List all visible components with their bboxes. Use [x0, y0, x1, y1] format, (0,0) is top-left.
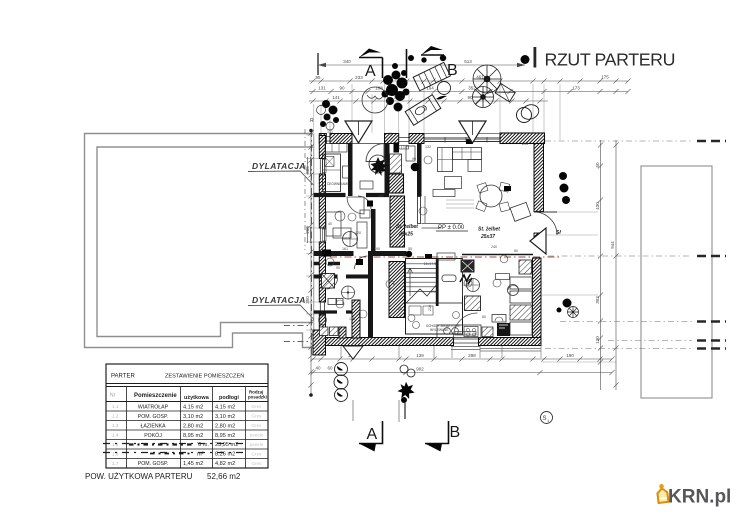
svg-text:Pomieszczenie: Pomieszczenie: [134, 393, 177, 399]
bathroom fan circle: [342, 286, 355, 299]
svg-text:panele: panele: [250, 433, 264, 438]
svg-text:135: 135: [349, 317, 355, 321]
bottom window / terrace door: [454, 339, 479, 343]
toilet: [319, 315, 327, 325]
sink unit: [492, 315, 506, 323]
svg-text:350: 350: [305, 296, 310, 304]
svg-text:B: B: [447, 62, 458, 79]
coffee table: [445, 177, 462, 189]
right vertical dimension chain 1: [600, 140, 602, 390]
svg-text:WYLEWANE: WYLEWANE: [430, 328, 448, 332]
svg-text:40: 40: [315, 366, 321, 371]
circled tag living: [500, 255, 508, 263]
red axis dash-dot line mid building: [330, 256, 560, 258]
door arc wiatrolap-hall: [347, 197, 364, 214]
hall console: [360, 181, 373, 189]
tv shelf: [433, 190, 455, 197]
circled room tags: [326, 156, 501, 318]
room table frame: [106, 364, 268, 468]
svg-text:RZUT PARTERU: RZUT PARTERU: [545, 50, 676, 70]
svg-text:panele: panele: [250, 442, 264, 447]
tick marks chain 3: [310, 89, 630, 94]
svg-text:użytkowa: użytkowa: [184, 395, 210, 401]
big window exterior sill: [424, 133, 500, 135]
svg-text:131: 131: [318, 86, 326, 91]
tech shelf: [406, 146, 415, 161]
stove: [464, 327, 478, 337]
interior wall horizontal y195: [314, 193, 390, 197]
svg-text:Gres: Gres: [252, 452, 263, 457]
neighbour building outline outer: [85, 134, 317, 348]
svg-text:2,80 m2: 2,80 m2: [215, 424, 235, 430]
svg-text:3,10 m2: 3,10 m2: [215, 414, 235, 420]
kitchen extra hatched block: [482, 327, 493, 337]
row lines: [106, 411, 268, 459]
svg-text:90: 90: [388, 132, 392, 136]
funnel bottom: [343, 346, 363, 359]
svg-text:303: 303: [595, 296, 600, 304]
left rotated labels: [305, 166, 310, 304]
svg-text:WIATROŁAP: WIATROŁAP: [138, 405, 169, 411]
fridge black: [497, 323, 510, 336]
section marker A top: [359, 57, 383, 59]
kitchen X hatch block: [519, 260, 532, 274]
radiator bottom window: [455, 332, 476, 336]
svg-text:190: 190: [566, 353, 574, 358]
room names: [138, 405, 169, 468]
small pier: [339, 327, 346, 338]
exterior wall top segment 3: [385, 134, 399, 144]
tick marks chain 2: [310, 78, 630, 83]
pokoj furniture: [326, 212, 341, 236]
top dimension chain 2: [309, 80, 628, 82]
interior wall vertical (wiatrolap left): [348, 144, 353, 197]
uzytkowa values: [183, 405, 209, 468]
column header bottom: [106, 401, 268, 403]
KRN.pl logo icon: [655, 483, 669, 504]
row numbers: [112, 404, 119, 466]
big glazing mullions: [424, 139, 500, 141]
svg-text:DYLATACJA: DYLATACJA: [252, 295, 306, 305]
svg-text:25x25: 25x25: [398, 232, 413, 238]
svg-text:DYLATACJA: DYLATACJA: [252, 161, 306, 171]
title dot: [521, 55, 530, 64]
radiator left window 2: [323, 229, 327, 241]
hall small blacks: [322, 250, 331, 257]
svg-text:Gres: Gres: [252, 414, 263, 419]
kitchen right cabinets column: [510, 277, 532, 289]
section marker B top: [406, 49, 408, 78]
tiny dim texts inside: [327, 130, 528, 321]
svg-text:340: 340: [343, 59, 351, 64]
hall thin partition lines: [422, 224, 463, 229]
svg-text:294: 294: [522, 142, 528, 146]
podlogi values: [215, 405, 238, 468]
svg-text:298: 298: [468, 353, 476, 358]
hall threshold black: [425, 254, 432, 258]
door arc hall-pokoj: [355, 256, 368, 269]
svg-text:4,15 m2: 4,15 m2: [215, 405, 235, 411]
door arc bathroom: [327, 278, 338, 289]
svg-text:posadzki: posadzki: [248, 395, 267, 400]
svg-text:120: 120: [355, 231, 361, 235]
right dash-dot axis lines: [545, 141, 692, 349]
window sill bottom exterior: [451, 347, 481, 350]
hall bench rounded: [442, 275, 456, 282]
stair left wall (hatched): [389, 262, 405, 318]
staircase outline: [406, 259, 463, 335]
bush cluster large (black): [382, 63, 410, 112]
sofa group living room: [438, 148, 453, 172]
top dimension chain 4: [309, 100, 548, 102]
rug lines living: [446, 200, 474, 208]
section marker A bottom: [352, 400, 354, 421]
wardrobe room A: [325, 144, 347, 153]
sink circles: [444, 328, 451, 335]
funnel symbol 1: [345, 121, 372, 143]
terrace edge lines right: [480, 349, 541, 352]
window top 2 (large glazing): [424, 138, 500, 142]
right vertical dimension chain 2: [615, 140, 617, 390]
left vertical dimension chain: [310, 129, 312, 397]
right boundary rectangle: [641, 166, 712, 398]
top dimension chain 3: [309, 91, 628, 93]
window top 2: [399, 138, 409, 142]
right trees dots: [557, 172, 572, 313]
funnel symbol right side: [530, 228, 546, 254]
kitchen island hatched: [465, 296, 481, 311]
radiator left window 1: [323, 160, 327, 173]
interior wall vertical (wiatrolap right): [385, 144, 390, 194]
exterior right wall mid stub: [534, 233, 542, 243]
svg-text:90: 90: [339, 86, 345, 91]
svg-text:25: 25: [398, 307, 402, 311]
svg-text:POM. GOSP.: POM. GOSP.: [138, 461, 168, 467]
window sill left exterior 1: [308, 157, 311, 175]
svg-text:130: 130: [595, 336, 600, 344]
svg-text:902: 902: [416, 367, 424, 372]
svg-text:POW. UŻYTKOWA PARTERU: POW. UŻYTKOWA PARTERU: [85, 472, 193, 481]
right flower: [568, 307, 579, 318]
svg-text:Gres: Gres: [252, 461, 263, 466]
exterior wall top-left segment: [319, 134, 326, 144]
svg-text:52,66 m2: 52,66 m2: [207, 472, 241, 481]
svg-text:11x17,5: 11x17,5: [424, 262, 437, 266]
title bar: [534, 47, 537, 68]
interior wall vertical pokoj/lazienka: [368, 256, 373, 338]
tick marks bottom chain 2: [310, 370, 614, 375]
pokoj B dark square: [367, 201, 373, 207]
svg-text:131: 131: [327, 130, 333, 134]
pokoj B small rect: [360, 210, 370, 218]
witness lines right: [542, 212, 616, 362]
header separator double line: [106, 383, 268, 385]
svg-text:2,80 m2: 2,80 m2: [183, 424, 203, 430]
entry door arc: [366, 144, 384, 162]
svg-text:3,10 m2: 3,10 m2: [183, 414, 203, 420]
exterior wall top segment 2: [330, 134, 352, 144]
nightstand: [343, 166, 349, 178]
tech room washer (hatched with X): [390, 154, 402, 173]
under-stair storage rects: [409, 306, 421, 315]
witness lines top: [314, 84, 560, 140]
right rotated labels: [595, 162, 615, 344]
svg-text:A: A: [367, 426, 378, 443]
small black fittings: [394, 143, 400, 153]
terrace door arc: [454, 313, 478, 337]
exterior right wall upper: [534, 144, 544, 212]
svg-text:25x37: 25x37: [480, 234, 495, 240]
svg-text:PARTER: PARTER: [111, 374, 135, 380]
svg-text:181: 181: [378, 194, 384, 198]
shower block hatched with X: [322, 274, 335, 289]
svg-text:40: 40: [328, 222, 332, 226]
svg-text:KRN.pl: KRN.pl: [668, 487, 731, 508]
stair stringer wall: [436, 259, 439, 307]
rotated table with X: [495, 84, 515, 102]
dylatacja joint line (red dash-dot): [311, 130, 313, 356]
dryer hatched: [330, 327, 339, 336]
sink unit rects: [328, 299, 336, 305]
chimney column (hatched): [390, 196, 405, 247]
svg-text:161: 161: [342, 247, 348, 251]
kitchen spoked table: [467, 279, 480, 292]
exterior wall top-right block: [500, 133, 545, 144]
svg-text:164: 164: [426, 86, 434, 91]
tick marks left chain: [308, 130, 313, 387]
neighbour building outline inner: [97, 147, 313, 337]
svg-text:R: R: [310, 118, 314, 124]
armchair: [510, 202, 531, 221]
pokoj B door arc: [358, 196, 371, 209]
texts in plan: [396, 224, 500, 240]
svg-text:B: B: [450, 424, 461, 441]
top dimension line 1: [318, 64, 525, 66]
dylatacja gap edge line: [313, 134, 315, 348]
stair up arrow: [408, 268, 413, 296]
svg-text:S: S: [543, 416, 547, 422]
tick marks bottom chain 1: [310, 356, 614, 361]
interior wall mid horizontal: [314, 251, 407, 256]
svg-text:8,95 m2: 8,95 m2: [183, 433, 203, 439]
tick marks chain 4: [310, 98, 542, 103]
strike dashed rows 5-6: [103, 444, 247, 454]
svg-text:60: 60: [327, 366, 333, 371]
sun lounger rotated: [405, 95, 441, 126]
svg-text:430: 430: [595, 202, 600, 210]
electrical zigzag: [460, 274, 471, 282]
S1 symbol: [541, 412, 553, 424]
interior wall vertical (tech room / living): [417, 144, 422, 197]
stair steps: [406, 264, 438, 292]
svg-text:podłogi: podłogi: [219, 395, 239, 401]
svg-text:90: 90: [412, 157, 416, 161]
kitchen counter along bottom: [437, 325, 481, 338]
bottom dimension chain 2: [311, 372, 612, 374]
bed room A: [323, 154, 341, 192]
stair break line: [406, 284, 437, 303]
posadzka column light: [250, 404, 264, 466]
bathroom inner wall: [314, 262, 341, 266]
coat hooks spiky disc: [369, 155, 388, 176]
svg-text:60: 60: [482, 315, 486, 319]
svg-text:210: 210: [431, 290, 437, 294]
washing machine hatched: [320, 327, 329, 336]
section marker B bottom: [425, 421, 449, 444]
svg-text:95: 95: [315, 75, 321, 80]
svg-text:513: 513: [464, 59, 472, 64]
circled tags stairs: [408, 315, 415, 322]
door right (arc): [534, 212, 557, 235]
svg-text:A: A: [365, 63, 376, 80]
bottom flower cluster: [400, 365, 408, 373]
bottom dimension chain 1: [311, 358, 612, 360]
svg-text:944: 944: [610, 241, 615, 249]
patio bench rotated striped: [413, 62, 450, 90]
tick marks right chain 1: [598, 142, 603, 364]
window sill left exterior 2: [308, 227, 311, 243]
svg-text:233: 233: [355, 75, 363, 80]
bench ellipse right: [519, 102, 541, 121]
column lines: [127, 387, 246, 469]
tech room boiler black dot: [411, 163, 420, 172]
duct core (hatched) upper: [389, 174, 404, 193]
svg-text:55: 55: [408, 247, 412, 251]
svg-text:Gres: Gres: [252, 404, 263, 409]
svg-text:4,15 m2: 4,15 m2: [183, 405, 203, 411]
bird mark: [436, 96, 447, 100]
exterior wall top segment 4: [409, 134, 424, 144]
pokoj B spoked circle: [343, 232, 358, 247]
radiator top window: [399, 146, 409, 150]
svg-text:Nr: Nr: [110, 393, 116, 399]
svg-text:1.1: 1.1: [112, 404, 119, 409]
svg-text:141: 141: [332, 95, 340, 100]
svg-text:POM. GOSP.: POM. GOSP.: [138, 414, 168, 420]
svg-text:PP ± 0.00: PP ± 0.00: [438, 225, 465, 231]
svg-text:CEOWNIKAMI: CEOWNIKAMI: [327, 182, 348, 186]
svg-text:1.3: 1.3: [112, 423, 119, 428]
exterior bottom wall left part: [326, 338, 454, 346]
bed pillow X: [325, 157, 335, 167]
funnel symbol 2: [459, 121, 486, 143]
svg-text:St. żelbet: St. żelbet: [478, 227, 500, 233]
swivel chair: [508, 285, 519, 296]
witness lines left: [306, 135, 319, 347]
kitchen/living divider line: [462, 258, 464, 296]
svg-text:Gres: Gres: [252, 423, 263, 428]
window top small: [326, 137, 330, 142]
svg-text:90: 90: [336, 266, 340, 270]
bottom shrub row: [334, 363, 348, 402]
svg-text:139: 139: [416, 353, 424, 358]
svg-text:1.5: 1.5: [112, 442, 119, 447]
exterior left wall (segments with window gaps): [319, 136, 325, 159]
svg-text:50: 50: [595, 162, 600, 168]
svg-text:80: 80: [514, 249, 518, 253]
svg-text:8,95 m2: 8,95 m2: [215, 433, 235, 439]
svg-text:ŁAZIENKA: ŁAZIENKA: [140, 424, 166, 430]
svg-text:1,45 m2: 1,45 m2: [183, 461, 203, 467]
svg-text:90: 90: [376, 247, 380, 251]
svg-text:1.2: 1.2: [112, 414, 119, 419]
kitchen upper counter: [496, 274, 510, 280]
kitchen tall cabinet dark: [461, 260, 475, 273]
exterior bottom wall right part: [479, 338, 542, 346]
tick marks right chain 2: [613, 142, 618, 387]
bathroom divider wall: [314, 310, 357, 313]
svg-text:1.4: 1.4: [112, 433, 119, 438]
svg-text:POKÓJ: POKÓJ: [144, 432, 162, 439]
exterior right wall lower: [533, 258, 542, 345]
interior wall bathroom horizontal: [314, 275, 369, 279]
svg-text:175: 175: [601, 75, 609, 80]
dining table: [480, 185, 502, 207]
entry opening: [352, 143, 385, 145]
daisy wheel 1: [473, 65, 501, 93]
daisy wheel 2: [473, 87, 494, 108]
svg-text:St. żelbet: St. żelbet: [396, 224, 418, 230]
svg-text:4,82 m2: 4,82 m2: [215, 461, 235, 467]
right heavy dash marks: [697, 141, 726, 349]
svg-text:1.7: 1.7: [112, 461, 119, 466]
top dimension labels: [315, 59, 609, 372]
svg-text:Sł: Sł: [556, 230, 561, 236]
stair well lower room line: [406, 303, 463, 334]
pokoj B right wall: [371, 209, 376, 254]
dim droppers bottom: [341, 346, 541, 358]
svg-text:ZESTAWIENIE POMIESZCZEŃ: ZESTAWIENIE POMIESZCZEŃ: [165, 373, 244, 380]
bottom-left corner pier: [313, 330, 326, 355]
svg-text:173: 173: [572, 86, 580, 91]
svg-text:240: 240: [491, 245, 497, 249]
wall pier hatched (bath): [352, 300, 360, 338]
bush cluster small left: [320, 100, 339, 127]
tree outline circle: [362, 87, 388, 113]
wardrobe hall: [357, 222, 367, 248]
svg-text:132: 132: [425, 145, 431, 149]
